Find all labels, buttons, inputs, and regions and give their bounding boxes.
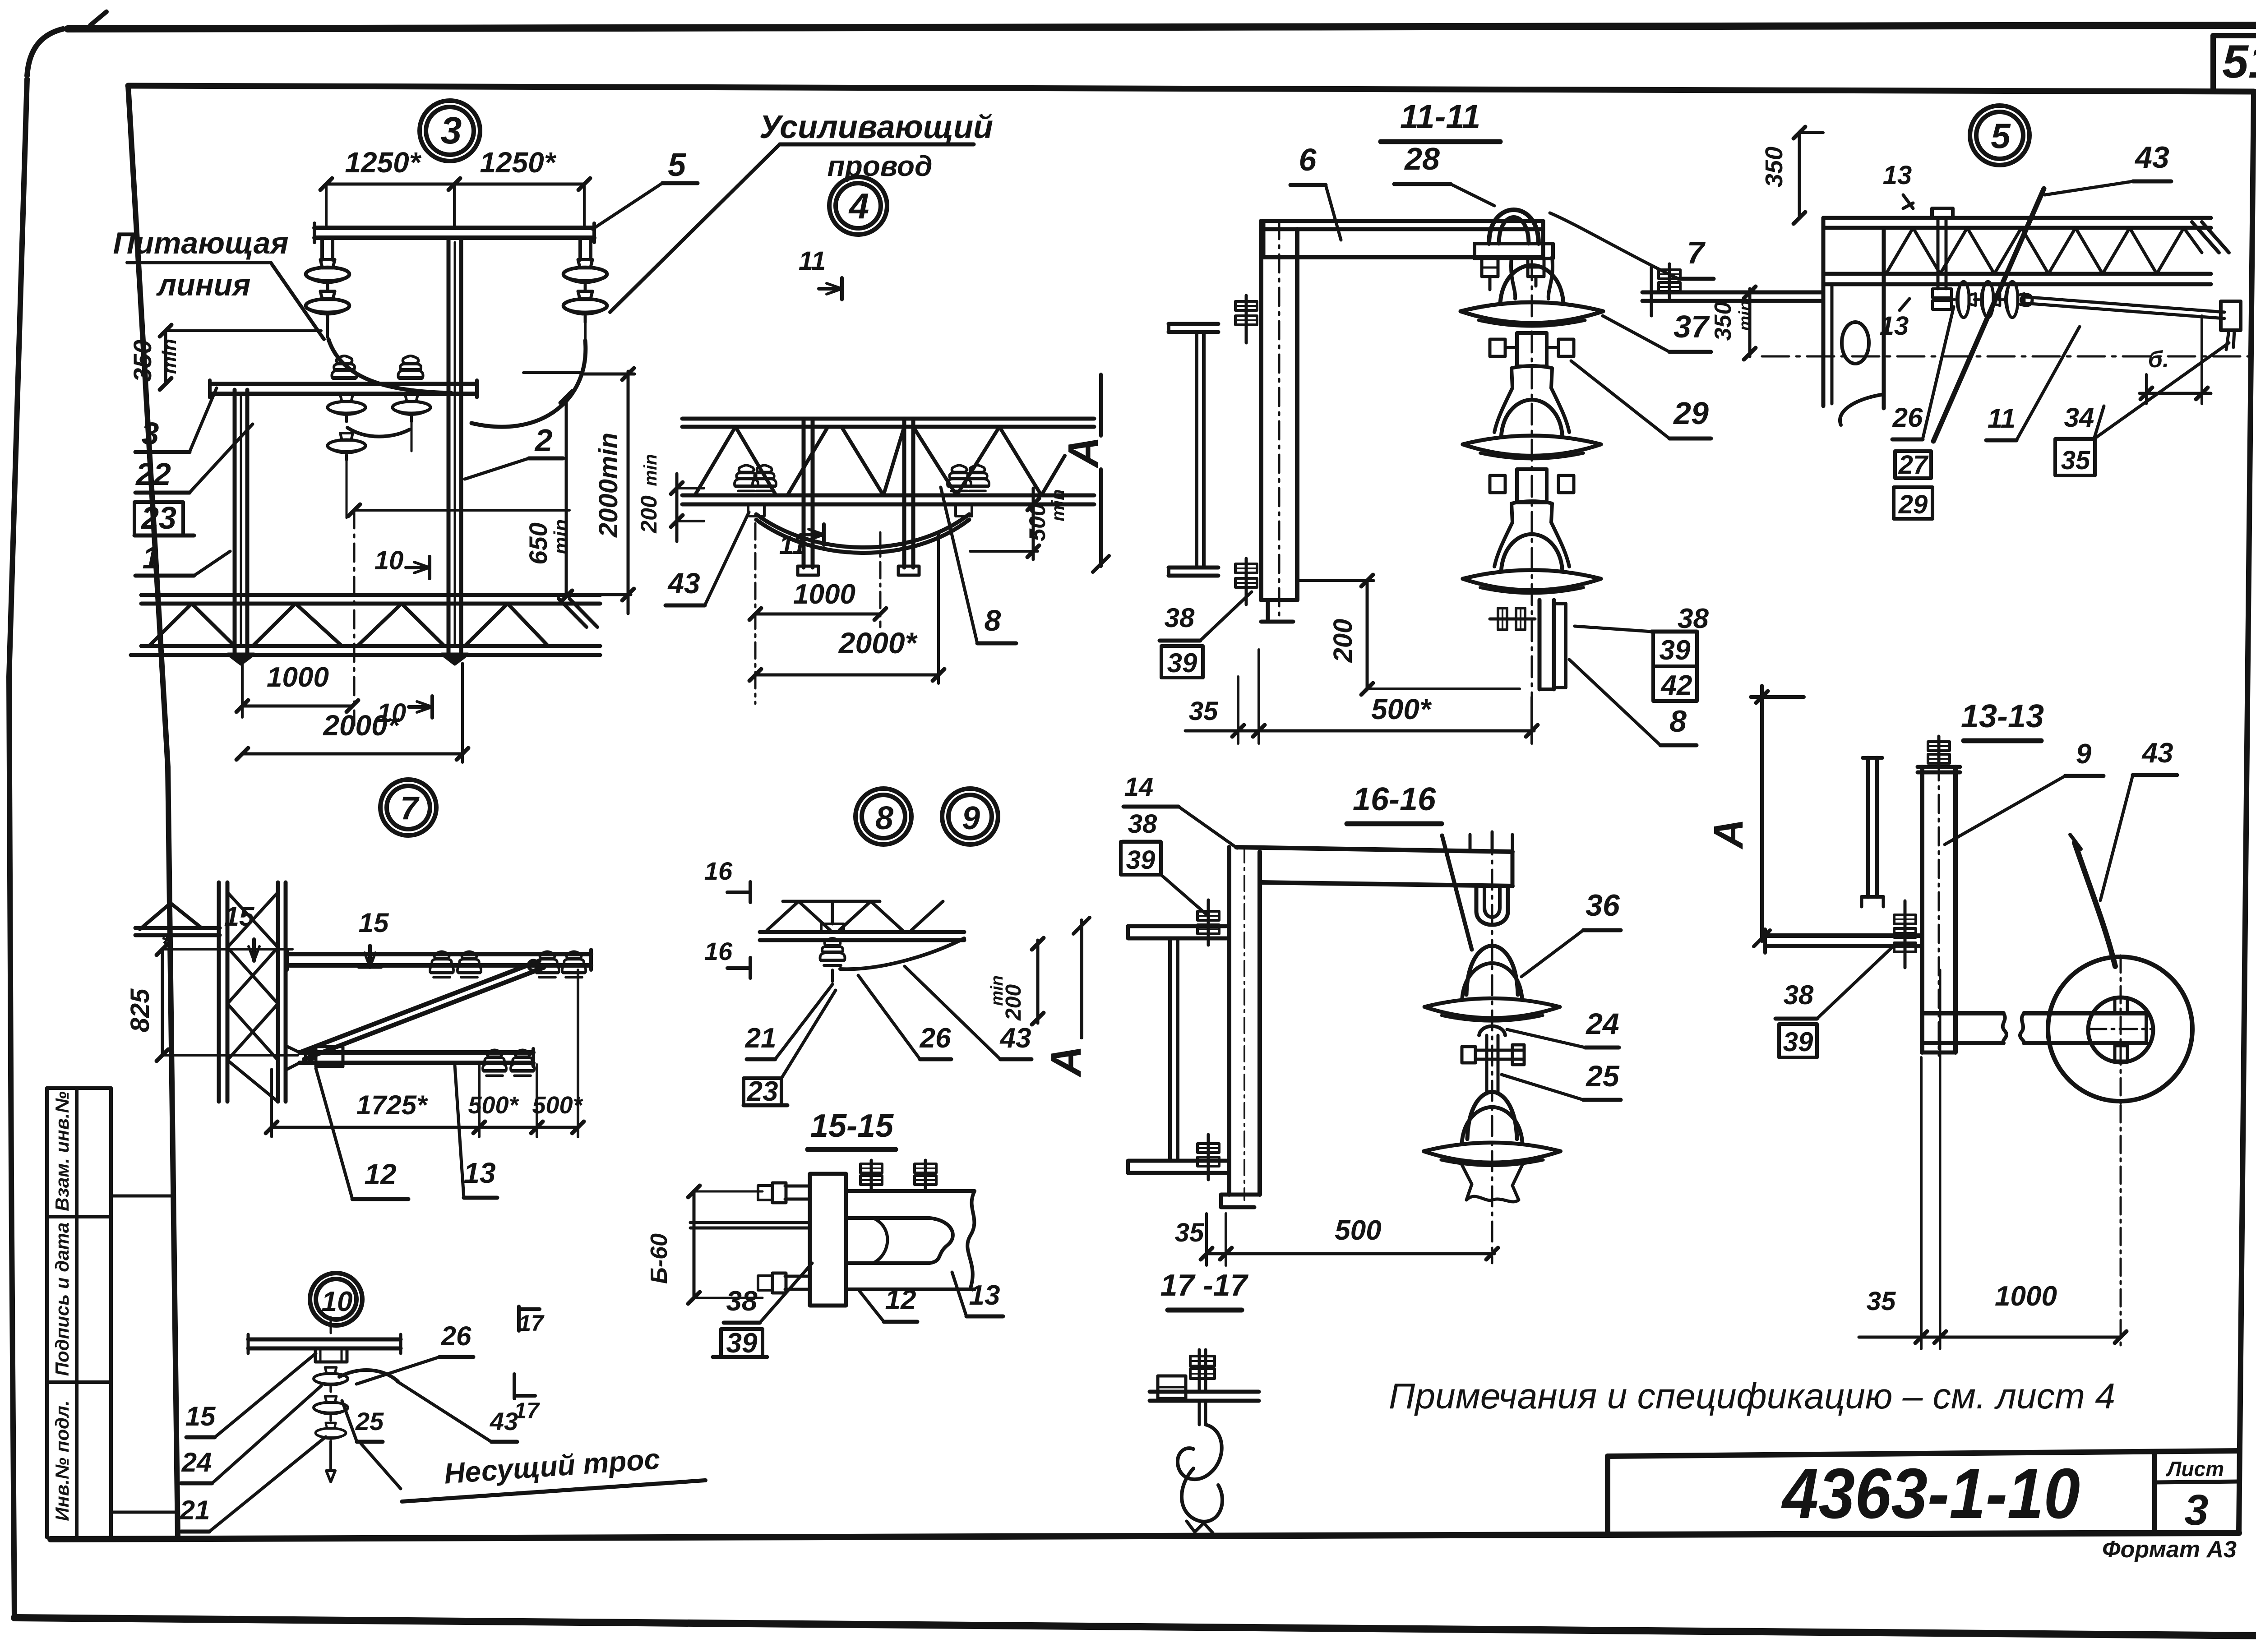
view1313 top bolt (1928, 736, 1950, 768)
view1313 wall beam flange (1765, 929, 1922, 953)
lower arm pin insulators (332, 356, 423, 383)
svg-text:42: 42 (1660, 670, 1692, 701)
section mark 10 upper (374, 546, 430, 578)
view3 truss diagonals (149, 604, 548, 646)
view1717 cross arm (1150, 1392, 1259, 1401)
section mark 11 lower (779, 524, 824, 560)
svg-text:10: 10 (374, 546, 404, 575)
svg-text:39: 39 (1167, 648, 1197, 678)
revision strip tie lines (111, 1196, 177, 1512)
svg-text:28: 28 (1404, 141, 1440, 176)
svg-text:26: 26 (441, 1321, 472, 1351)
view4 right post (898, 419, 919, 575)
label 24 view10 (181, 1386, 321, 1483)
label 36 (1521, 888, 1621, 977)
view1313 jumper wire (2070, 835, 2115, 966)
svg-text:A: A (1706, 819, 1752, 849)
revision label vzam inv (51, 1091, 73, 1211)
section mark 15 left (224, 901, 259, 961)
svg-text:37: 37 (1674, 309, 1710, 344)
dim 825 view7 (125, 929, 298, 1061)
insulator bell 3 cap (1512, 501, 1552, 522)
label 25 1616 (1502, 1059, 1621, 1100)
section mark 10 lower (377, 696, 432, 728)
svg-text:5: 5 (1991, 116, 2011, 156)
svg-text:35: 35 (2061, 446, 2090, 475)
svg-text:39: 39 (1660, 635, 1691, 666)
view1313 fixing bolt (1894, 901, 1916, 968)
svg-text:14: 14 (1124, 772, 1154, 802)
dim 350 upper view5 (1761, 127, 1823, 224)
svg-text:36: 36 (1586, 888, 1620, 923)
svg-text:1: 1 (143, 540, 160, 575)
svg-text:500*: 500* (468, 1092, 519, 1119)
view89 wire (840, 938, 964, 969)
view1111 top fixing bolt (1235, 295, 1257, 343)
svg-text:350: 350 (128, 340, 157, 382)
svg-text:1725*: 1725* (356, 1090, 428, 1120)
view1313 roller (2048, 957, 2192, 1101)
link plate 1616 (1487, 1068, 1498, 1094)
revision strip verticals (47, 1088, 111, 1538)
label 23 boxed view89 (744, 990, 836, 1107)
dim 200 view1111 (1297, 575, 1520, 695)
title 17-17 (1160, 1268, 1249, 1310)
svg-text:13: 13 (1883, 161, 1912, 190)
labels 14 38 39 stack (1121, 772, 1237, 915)
view5 rod to clamp (2021, 295, 2224, 318)
node circle 8 (855, 789, 911, 844)
view1616 building column (1128, 926, 1229, 1173)
svg-text:650: 650 (524, 522, 552, 564)
view5 horizontal insulator string (1950, 281, 2025, 318)
view3 lower cross-arm (210, 380, 477, 397)
svg-text:7: 7 (400, 790, 420, 826)
label 12 view1515 (860, 1284, 917, 1322)
section mark 15 right (359, 908, 389, 967)
dims 1725 500 500 (266, 970, 584, 1137)
view7 hinge plates (286, 1046, 343, 1070)
svg-text:1000: 1000 (267, 662, 329, 693)
view10 centre axis (330, 1317, 332, 1333)
dim 500 view1111 (1185, 650, 1538, 743)
svg-text:13: 13 (463, 1157, 495, 1189)
insulator bell 2 cap (1512, 366, 1552, 388)
label 24 1616 (1507, 1007, 1619, 1047)
svg-text:29: 29 (1673, 396, 1709, 431)
label 2 leader (465, 423, 563, 479)
upper arm pin insulators (430, 951, 586, 977)
view1111 bottom fixing bolt (1235, 558, 1257, 605)
section arrow A view4 (1059, 374, 1109, 572)
insulator bell 36 (1424, 946, 1560, 1021)
view1515 top bolt (758, 1183, 810, 1203)
callout nesushchiy tros (361, 1440, 705, 1502)
label 43 view5 (2045, 140, 2171, 195)
dim 2000 view3 (236, 663, 468, 762)
view5 hanger bolt (1932, 218, 1951, 309)
dim 1250 left text (345, 146, 421, 179)
svg-text:Инв.№ подл.: Инв.№ подл. (51, 1400, 73, 1521)
svg-text:500*: 500* (532, 1092, 583, 1119)
dim 1000 view3 (236, 662, 358, 717)
view3 left insulator string (306, 260, 350, 338)
svg-text:38: 38 (1165, 603, 1195, 633)
view1717 thimble (1182, 1468, 1222, 1533)
dim 350 min lower view5 (1710, 286, 1756, 360)
insulator bell 2 1616 (1424, 1092, 1560, 1202)
title 11-11 (1381, 98, 1500, 142)
view5 wall beam (1642, 266, 1823, 316)
labels 38 39 left (1160, 592, 1252, 678)
view1616 top bolt (1197, 900, 1219, 945)
label 9 view1313 (1945, 738, 2103, 844)
wire between lower strings (347, 428, 410, 437)
label 43 view4 (666, 512, 749, 605)
svg-text:24: 24 (1585, 1007, 1619, 1040)
view1313 roller clamp (2089, 955, 2152, 1105)
svg-text:15: 15 (359, 908, 389, 938)
dim B-60 (646, 1186, 763, 1304)
svg-text:1000: 1000 (793, 579, 855, 610)
svg-text:5: 5 (668, 147, 686, 183)
svg-text:линия: линия (156, 268, 251, 302)
svg-text:8: 8 (875, 800, 893, 836)
section mark 16 lower (704, 937, 750, 978)
view1515 bottom bolt (758, 1273, 810, 1293)
view4 left post (798, 419, 818, 575)
title block outline (1608, 1451, 2239, 1534)
view1515 gusset plate (810, 1174, 846, 1306)
view5 truss bottom chord (1823, 274, 2211, 284)
section mark 17 lower (514, 1374, 540, 1423)
svg-text:провод: провод (828, 150, 933, 182)
label 29 view1111 (1571, 361, 1711, 438)
inner frame left edge (128, 86, 178, 1538)
labels 38 39 42 stack (1575, 603, 1709, 701)
view10 jumper wire (339, 1370, 398, 1381)
outer border bottom edge (14, 1618, 2256, 1636)
svg-text:200: 200 (1328, 619, 1358, 663)
label 25 view10 (342, 1401, 384, 1442)
dim 350 min (128, 325, 321, 390)
callout usilivayushchiy provod (610, 109, 993, 312)
svg-text:16: 16 (704, 937, 733, 965)
view5 dead-end clamp (2221, 301, 2241, 350)
view1717 side nut (1158, 1376, 1186, 1398)
clevis 1 (1490, 333, 1574, 366)
centre axis (353, 510, 356, 725)
svg-text:A: A (1042, 1046, 1090, 1078)
view1111 building column (1169, 324, 1218, 576)
revision label podpis (51, 1223, 73, 1376)
svg-text:500: 500 (1335, 1215, 1381, 1246)
view89 truss rail (760, 932, 964, 940)
svg-text:35: 35 (1175, 1218, 1204, 1247)
view1111 arm bracket (1263, 221, 1543, 257)
insulator bell 2 (1463, 388, 1601, 459)
svg-text:10: 10 (322, 1286, 353, 1317)
view4 truss top chord (682, 419, 1094, 427)
svg-text:15-15: 15-15 (810, 1108, 894, 1144)
dim 200 min view4 (636, 454, 704, 541)
bottom clamp strap (1539, 600, 1566, 689)
dim 500 1616 (1175, 1214, 1498, 1265)
svg-text:17: 17 (514, 1398, 540, 1423)
view5 wall beam bolt (1659, 264, 1680, 298)
view1313 beam left segment (1923, 1013, 2006, 1043)
svg-text:9: 9 (962, 800, 980, 836)
feeder wire sweep from right string (472, 341, 586, 427)
view5 truss top chord (1823, 218, 2211, 228)
label 8 view4 (941, 487, 1016, 643)
dim b view5 (2140, 316, 2211, 404)
svg-text:Б-60: Б-60 (646, 1233, 672, 1284)
svg-text:9: 9 (2076, 738, 2092, 770)
label 3 leader (135, 388, 217, 452)
view1717 bolt (1190, 1350, 1215, 1392)
view89 pin insulator (820, 938, 845, 982)
view1616 arm (1236, 847, 1512, 886)
svg-text:39: 39 (1783, 1027, 1813, 1057)
view5 truss break (2192, 222, 2229, 253)
view1616 wall plate (1221, 847, 1260, 1207)
notes text (1389, 1376, 2115, 1416)
svg-text:38: 38 (1784, 980, 1814, 1010)
label 22 (135, 424, 253, 493)
label 38 view1515 (724, 1263, 812, 1323)
label 21 view89 (745, 984, 832, 1059)
view5 jumper wire (1933, 189, 2044, 441)
section mark 16 upper (704, 857, 750, 902)
clevis 2 (1490, 469, 1574, 503)
svg-text:38: 38 (726, 1286, 758, 1317)
svg-text:4: 4 (848, 186, 869, 226)
section mark 13 upper (1883, 161, 1913, 208)
centreline 1616 (1491, 835, 1493, 1263)
svg-text:17 -17: 17 -17 (1160, 1268, 1249, 1302)
label 26 view10 (356, 1321, 473, 1384)
svg-text:Усиливающий: Усиливающий (759, 109, 993, 145)
svg-text:35: 35 (1189, 697, 1218, 726)
clevis bolt 1616 (1462, 1045, 1524, 1065)
svg-text:34: 34 (2064, 402, 2094, 433)
svg-text:2000*: 2000* (323, 709, 400, 742)
reinforcing wire sag (756, 514, 969, 553)
dim 2000 min (523, 368, 634, 614)
view3 truss bottom chord (131, 646, 600, 655)
label 21 view10 (180, 1437, 326, 1532)
axis extension line (348, 504, 569, 516)
svg-text:min: min (1736, 300, 1755, 331)
section arrow A view89 (1042, 918, 1090, 1077)
view7 lower beam (300, 1049, 533, 1066)
lower hanger string left (328, 395, 365, 518)
view1717 hook (1178, 1401, 1222, 1479)
ball eye link (1479, 1026, 1505, 1068)
insulator bell 3 (1463, 522, 1601, 593)
svg-text:3: 3 (441, 109, 462, 152)
label pitayushchaya liniya (113, 226, 324, 339)
dims 35 1000 view1313 (1859, 970, 2127, 1349)
lower beam pin insulators (483, 1050, 534, 1075)
view4 pin insulators right (948, 465, 989, 491)
labels 38 39 view1313 (1775, 944, 1896, 1057)
node circle 7 (380, 780, 436, 835)
label 5 (592, 147, 698, 229)
svg-text:15: 15 (185, 1401, 216, 1431)
svg-text:26: 26 (1892, 402, 1923, 433)
inner frame bottom edge (51, 1533, 2239, 1539)
svg-text:26: 26 (920, 1023, 951, 1054)
svg-text:43: 43 (999, 1023, 1031, 1054)
dim 500 min view4 (970, 488, 1068, 559)
view3 right insulator string (564, 260, 607, 340)
view3 left post (235, 390, 247, 659)
svg-text:*: * (161, 929, 172, 959)
view4 truss diagonals (695, 427, 1065, 495)
label 11 view5 (1986, 327, 2080, 440)
node circle 3 (420, 101, 480, 161)
insulator string centreline (1531, 259, 1533, 697)
revision label inv podl (51, 1400, 73, 1521)
svg-text:Питающая: Питающая (113, 226, 289, 260)
view1313 wall column (1862, 758, 1883, 907)
node circle 4 (829, 177, 887, 235)
svg-text:3: 3 (2184, 1486, 2208, 1534)
bottom clamp bolt (1490, 608, 1535, 630)
label 26 view89 (858, 975, 951, 1059)
svg-text:Формат А3: Формат А3 (2102, 1537, 2237, 1563)
svg-text:min: min (641, 454, 661, 486)
svg-text:23: 23 (747, 1076, 778, 1107)
view1111 wall channel (1261, 221, 1297, 623)
svg-text:min: min (1048, 489, 1068, 521)
svg-text:A: A (1059, 437, 1107, 469)
label 43 view89 (905, 966, 1031, 1059)
svg-text:13-13: 13-13 (1961, 698, 2044, 734)
label 39 boxed view1515 (713, 1328, 767, 1359)
dim line 1250+1250 (320, 178, 590, 228)
view1515 wire clamp body (846, 1191, 975, 1289)
label 12 view7 (316, 1068, 408, 1199)
outer border top-left corner (27, 12, 106, 76)
title 13-13 (1961, 698, 2044, 741)
view1313 post (1918, 762, 1960, 1056)
title 15-15 (808, 1108, 896, 1149)
view1616 shackle (1470, 832, 1512, 925)
view7 top corner beam (135, 903, 220, 935)
svg-text:43: 43 (667, 567, 700, 600)
lower hanger string right (393, 395, 430, 451)
view1313 beam right segment (2020, 1013, 2146, 1043)
svg-text:1250*: 1250* (345, 146, 421, 179)
feeder wire from left string (328, 339, 451, 393)
svg-text:24: 24 (181, 1447, 212, 1477)
svg-text:22: 22 (135, 457, 171, 492)
title block list cell (2154, 1457, 2239, 1534)
dim 1000 view4 (749, 523, 886, 704)
label 43 view1313 (2100, 738, 2177, 900)
node circle 10 (310, 1273, 362, 1325)
view7 lattice column chords (219, 882, 286, 1102)
view4 wire clamps (748, 504, 972, 516)
svg-text:500*: 500* (1371, 693, 1432, 725)
dim 650 min (524, 391, 572, 602)
section mark 17 upper (518, 1306, 545, 1336)
view1616 bottom bolt (1197, 1135, 1219, 1180)
label 6 (1290, 142, 1341, 240)
inner frame right edge (2239, 92, 2254, 1533)
svg-text:11: 11 (1988, 403, 2016, 434)
label 7 view1111 (1550, 213, 1714, 279)
svg-text:43: 43 (2134, 140, 2169, 175)
label 8 view1111 (1569, 660, 1697, 745)
svg-text:2000min: 2000min (594, 433, 623, 538)
view1515 tie rod (690, 1223, 810, 1228)
label 28 (1394, 141, 1494, 206)
title block format note (2102, 1537, 2237, 1563)
svg-text:12: 12 (885, 1284, 916, 1315)
svg-text:23: 23 (140, 500, 176, 535)
svg-text:Лист: Лист (2166, 1457, 2224, 1481)
svg-text:1000: 1000 (1995, 1281, 2057, 1312)
svg-text:21: 21 (180, 1495, 210, 1525)
view89 truss diagonals (767, 901, 943, 930)
label 13 view7 (455, 1066, 497, 1198)
svg-text:17: 17 (518, 1311, 545, 1336)
svg-text:6: 6 (1299, 142, 1317, 177)
outer border top edge (68, 25, 2256, 29)
view10 beam (248, 1334, 401, 1353)
view1515 clamp bolts (860, 1160, 936, 1191)
svg-text:8: 8 (985, 604, 1001, 637)
label 43 view10 (397, 1381, 518, 1442)
svg-text:Примечания и спецификацию –: Примечания и спецификацию – см. лист 4 (1389, 1376, 2115, 1416)
svg-text:2: 2 (534, 423, 553, 458)
view10 insulator string (314, 1367, 348, 1482)
cap of string (1511, 257, 1553, 299)
svg-text:29: 29 (1898, 490, 1928, 519)
svg-text:16-16: 16-16 (1353, 781, 1436, 817)
svg-text:3: 3 (142, 416, 159, 451)
svg-text:16: 16 (704, 857, 733, 885)
view3 top cross-arm (314, 223, 594, 242)
svg-text:15: 15 (224, 901, 255, 932)
svg-text:35: 35 (1867, 1287, 1896, 1316)
section arrow A 13-13 (1706, 686, 1804, 946)
view5 top plate (1932, 208, 1953, 218)
view4 truss bottom chord (682, 495, 1094, 504)
svg-text:Подпись и дата: Подпись и дата (51, 1223, 73, 1376)
view3 right hanger (580, 238, 591, 260)
post feet (228, 654, 468, 664)
svg-text:2000*: 2000* (838, 626, 918, 660)
view89 centre plate (821, 901, 844, 932)
section mark 11 upper (799, 246, 842, 300)
view7 lattice X bracing (227, 892, 278, 1102)
svg-text:51: 51 (2222, 36, 2256, 88)
svg-text:min: min (550, 519, 572, 554)
svg-text:11-11: 11-11 (1400, 98, 1480, 135)
svg-text:21: 21 (745, 1023, 777, 1054)
svg-text:39: 39 (1126, 845, 1156, 875)
svg-text:350: 350 (1761, 147, 1788, 187)
view3 truss break marks (559, 599, 597, 627)
svg-text:25: 25 (355, 1407, 384, 1435)
view3 truss top chord (141, 595, 600, 604)
svg-text:25: 25 (1585, 1059, 1620, 1093)
